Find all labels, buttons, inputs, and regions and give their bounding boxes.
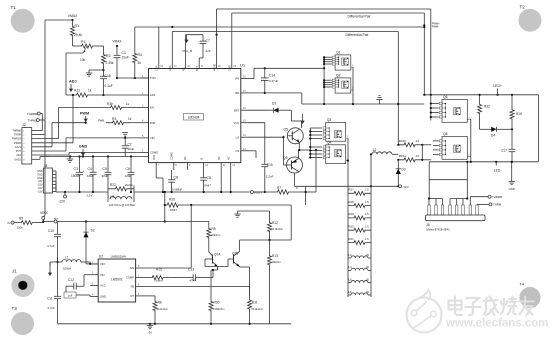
gate bus vertical bbox=[309, 128, 311, 158]
wire to Q1 pin bbox=[324, 59, 332, 61]
svg-text:L6: L6 bbox=[349, 290, 353, 294]
inductor L5 bbox=[351, 281, 368, 283]
svg-text:R12: R12 bbox=[272, 221, 278, 225]
wire left rail down to VINX bbox=[44, 20, 46, 216]
wire to Q6 pin bbox=[431, 107, 439, 109]
svg-text:THRMB: THRMB bbox=[27, 112, 37, 116]
svg-text:PWRGD: PWRGD bbox=[12, 138, 21, 141]
wire Q7 bases bbox=[205, 258, 213, 260]
U1 left pin 2 ADJ bbox=[141, 94, 149, 96]
wire to Q1 pin bbox=[324, 61, 332, 63]
svg-text:Molex 87438-0843: Molex 87438-0843 bbox=[426, 228, 450, 232]
wire C7 bottom to pin bbox=[202, 50, 204, 58]
svg-text:T3: T3 bbox=[12, 306, 18, 311]
wire gate to Q4 pin 2 bbox=[310, 150, 322, 152]
svg-text:ADJ: ADJ bbox=[16, 154, 21, 157]
svg-text:LED+: LED+ bbox=[493, 84, 502, 88]
svg-text:1.5: 1.5 bbox=[365, 188, 369, 192]
svg-text:R25: R25 bbox=[156, 268, 162, 272]
svg-text:POT: POT bbox=[16, 150, 21, 153]
lower supply bus bbox=[65, 191, 108, 193]
J8 pin7 to THRMB bbox=[469, 197, 471, 205]
svg-text:T1: T1 bbox=[11, 5, 17, 10]
svg-text:D2: D2 bbox=[91, 229, 95, 233]
wire D1 to Q5 collector bbox=[284, 109, 292, 111]
svg-text:R16: R16 bbox=[516, 112, 522, 116]
resistor R20 bbox=[348, 228, 371, 232]
wire to Q6 pin bbox=[431, 112, 439, 114]
resistor R11b bbox=[248, 296, 252, 313]
inductor L3 bbox=[351, 256, 368, 258]
svg-text:Differential Pair: Differential Pair bbox=[345, 33, 369, 37]
svg-text:GND1: GND1 bbox=[14, 158, 21, 161]
svg-text:VCC: VCC bbox=[234, 121, 240, 125]
svg-text:THRM: THRM bbox=[14, 134, 21, 137]
wire VIN line to R8 bbox=[86, 221, 209, 223]
wire to Q2 pin bbox=[324, 84, 332, 86]
U1 left pin 1 TON bbox=[141, 77, 149, 79]
svg-text:J8: J8 bbox=[426, 223, 430, 227]
svg-text:COMD: COMD bbox=[150, 151, 158, 155]
svg-text:R2: R2 bbox=[106, 54, 111, 58]
svg-text:Q4: Q4 bbox=[327, 141, 332, 145]
wire R4 top to rail C bbox=[134, 27, 136, 50]
net label LED- bbox=[495, 161, 497, 163]
svg-text:-15V: -15V bbox=[37, 190, 42, 193]
capacitor C12 bbox=[84, 274, 90, 276]
resistor R8 bbox=[208, 222, 210, 227]
svg-text:R3: R3 bbox=[112, 117, 116, 121]
resistor R21 bbox=[348, 241, 371, 245]
capacitor C8 bbox=[171, 170, 173, 176]
wire VMAX to left rail bbox=[45, 19, 73, 21]
wire C13 junction to Q7A bbox=[212, 270, 214, 278]
svg-text:U2: U2 bbox=[99, 255, 103, 259]
svg-text:C2: C2 bbox=[128, 143, 132, 147]
wire to Q2 pin bbox=[324, 82, 332, 84]
LED+ bus bbox=[425, 94, 539, 96]
resistor R2 bbox=[102, 52, 106, 66]
wire R26 left to VIN line bbox=[164, 205, 166, 222]
wire R4 bottom to TON line bbox=[134, 66, 136, 78]
svg-text:TON: TON bbox=[150, 76, 156, 80]
svg-text:C8: C8 bbox=[174, 176, 178, 180]
ferrite bead L3a bbox=[110, 197, 132, 200]
resistor R5 bbox=[18, 221, 36, 225]
svg-text:1.5: 1.5 bbox=[365, 200, 369, 204]
U1 right pin 17 BD bbox=[241, 92, 248, 94]
svg-text:Q3: Q3 bbox=[327, 118, 332, 122]
U2 left pin 1 VIN bbox=[90, 263, 98, 265]
svg-text:D3: D3 bbox=[402, 168, 406, 172]
ground on drain bus bbox=[379, 100, 381, 105]
capacitor C13 bbox=[172, 277, 186, 279]
svg-text:VIN: VIN bbox=[100, 273, 105, 277]
svg-text:100k: 100k bbox=[17, 226, 24, 230]
svg-text:P1: P1 bbox=[81, 40, 85, 44]
svg-text:PWM-: PWM- bbox=[432, 25, 439, 29]
svg-text:R13: R13 bbox=[272, 254, 278, 258]
svg-text:R29: R29 bbox=[349, 212, 355, 216]
U2 right pin 6 FB bbox=[136, 286, 143, 288]
svg-text:C13: C13 bbox=[188, 268, 194, 272]
capacitor C1 bbox=[116, 46, 118, 51]
J8 pin 5 bbox=[456, 205, 458, 215]
wire EN riser bbox=[190, 205, 192, 268]
svg-text:T4: T4 bbox=[519, 282, 524, 287]
svg-text:1k: 1k bbox=[88, 89, 92, 93]
wire base drive bbox=[248, 136, 284, 138]
resistor R16 bbox=[511, 95, 513, 107]
svg-text:.01: .01 bbox=[415, 139, 419, 143]
svg-text:1k: 1k bbox=[128, 117, 132, 121]
svg-text:C12: C12 bbox=[68, 278, 74, 282]
svg-text:NC: NC bbox=[182, 67, 185, 71]
U1 bottom pin 8 COMD bbox=[173, 163, 175, 170]
ground above R12 bbox=[237, 211, 239, 214]
svg-text:100uH: 100uH bbox=[63, 267, 71, 271]
U1 bottom pin 9 NC bbox=[186, 163, 188, 170]
svg-text:2.2uF: 2.2uF bbox=[266, 175, 274, 179]
wire LED- to J8 bbox=[466, 162, 468, 199]
U1 right pin 15 VCC bbox=[241, 122, 248, 124]
svg-text:4.7uF: 4.7uF bbox=[48, 306, 55, 310]
U1 part number box bbox=[184, 114, 204, 121]
capacitor C9 bbox=[203, 170, 205, 175]
svg-text:COMP: COMP bbox=[126, 276, 134, 280]
gate bus top junction bbox=[323, 67, 325, 69]
svg-text:CSN: CSN bbox=[169, 66, 172, 71]
resistor R25 bbox=[143, 276, 172, 280]
inductor L2 bbox=[372, 152, 392, 155]
wire U2 RT to R6 bbox=[143, 295, 155, 297]
U1 left pin 3 EN bbox=[141, 107, 149, 109]
svg-text:NC: NC bbox=[228, 156, 231, 160]
resistor R6 bbox=[153, 299, 157, 313]
svg-text:R21: R21 bbox=[349, 237, 355, 241]
wire gate to Q3 pin 2 bbox=[310, 131, 322, 133]
svg-text:PGND: PGND bbox=[213, 64, 216, 71]
resistor R13 bbox=[269, 240, 271, 253]
gate wire Q6 bbox=[430, 103, 432, 121]
wire rail D bbox=[172, 31, 398, 33]
svg-text:150uF: 150uF bbox=[71, 174, 80, 178]
svg-text:75ohm: 75ohm bbox=[154, 279, 163, 283]
wire P1 to R2 bbox=[93, 45, 104, 47]
U2 left pin 2 VIN bbox=[90, 274, 98, 276]
svg-text:NC: NC bbox=[184, 156, 187, 160]
resistor R1 bbox=[71, 20, 75, 42]
svg-text:RT: RT bbox=[130, 294, 134, 298]
wire pin18 jog up bbox=[248, 78, 254, 80]
ground symbol on bus bbox=[69, 157, 71, 160]
ground left of U2 bbox=[50, 261, 58, 263]
svg-text:LO: LO bbox=[236, 135, 240, 139]
connector J8 body bbox=[425, 215, 485, 221]
wire J2 pin4 to ADJ line bbox=[32, 142, 73, 144]
svg-text:OMIT: OMIT bbox=[204, 184, 211, 188]
svg-text:BD: BD bbox=[235, 91, 239, 95]
inductor L4 bbox=[351, 268, 368, 270]
svg-text:-5V: -5V bbox=[148, 331, 152, 335]
svg-text:+: + bbox=[83, 170, 85, 174]
svg-text:R20: R20 bbox=[349, 224, 355, 228]
op-amp U1 LM3434 body bbox=[149, 69, 241, 163]
wire C18 to ADJ line bbox=[103, 85, 105, 95]
capacitor C17 bbox=[511, 122, 513, 129]
riser to vout bbox=[305, 186, 307, 205]
resistor R28 bbox=[348, 204, 371, 208]
svg-text:0.068uF: 0.068uF bbox=[172, 188, 183, 192]
svg-text:C6: C6 bbox=[126, 167, 130, 171]
svg-text:R22: R22 bbox=[110, 183, 116, 187]
inductor L6 bbox=[351, 293, 368, 295]
svg-text:Q2: Q2 bbox=[336, 74, 341, 78]
wire diff pair A upper bbox=[217, 8, 431, 10]
svg-text:CSP: CSP bbox=[156, 66, 159, 71]
svg-text:100 Ohms @ 100 MHz: 100 Ohms @ 100 MHz bbox=[109, 203, 136, 207]
svg-text:L5: L5 bbox=[349, 278, 353, 282]
wire gate to Q4 pin 3 bbox=[310, 153, 322, 155]
wire to Q8 pin bbox=[433, 144, 439, 146]
svg-text:C15: C15 bbox=[267, 163, 273, 167]
svg-text:R8: R8 bbox=[212, 227, 216, 231]
svg-text:Q8: Q8 bbox=[443, 132, 448, 136]
ground GND right bbox=[511, 162, 513, 182]
J8 tie 4-6 bbox=[449, 199, 451, 206]
svg-text:J1: J1 bbox=[12, 269, 17, 274]
diode D3 bbox=[397, 160, 399, 169]
svg-text:IS: IS bbox=[200, 157, 203, 160]
svg-text:LM5002MA: LM5002MA bbox=[111, 255, 126, 259]
svg-text:R5: R5 bbox=[19, 217, 23, 221]
svg-text:FB: FB bbox=[131, 285, 135, 289]
ground bus bbox=[50, 156, 149, 158]
svg-text:R11: R11 bbox=[74, 89, 80, 93]
resistor R26 bbox=[164, 192, 166, 205]
diode D1 bbox=[248, 109, 271, 111]
svg-text:0.1uF: 0.1uF bbox=[105, 84, 113, 88]
wire J2 pin3 to EN riser bbox=[32, 138, 59, 140]
svg-text:R7: R7 bbox=[277, 186, 281, 190]
wire J2 pin2 to THRM bbox=[32, 134, 45, 136]
U1 right pin 16 BST bbox=[241, 109, 248, 111]
resistor R32 bbox=[479, 95, 481, 101]
svg-text:R11: R11 bbox=[252, 301, 258, 305]
terminal VOUT bbox=[250, 191, 253, 194]
svg-text:C1: C1 bbox=[122, 51, 126, 55]
svg-text:OMIT: OMIT bbox=[170, 208, 177, 212]
svg-text:1uF: 1uF bbox=[68, 294, 73, 298]
wire gate to Q3 pin 4 bbox=[310, 138, 322, 140]
svg-text:EN: EN bbox=[150, 106, 154, 110]
U1 left pin 5 VIN bbox=[141, 137, 149, 139]
svg-text:BST: BST bbox=[234, 108, 240, 112]
wire J2 pin1 to THRMB bbox=[32, 130, 43, 132]
wire R15 to Q8 pins bbox=[422, 144, 431, 146]
resistor R3b bbox=[104, 106, 128, 110]
U1 bottom pin 11 NC bbox=[220, 163, 222, 170]
J8 pin 2 bbox=[435, 205, 437, 215]
svg-text:C11: C11 bbox=[47, 297, 53, 301]
LED- bus bbox=[429, 161, 538, 163]
wire Q1 Q2 drains bbox=[352, 66, 354, 68]
svg-text:10k: 10k bbox=[80, 58, 86, 62]
capacitor C18 bbox=[103, 70, 105, 76]
ground bottom bbox=[149, 324, 151, 326]
wire R1 to P1 bbox=[72, 42, 74, 46]
svg-text:VCC_B: VCC_B bbox=[182, 49, 192, 53]
svg-text:VIN: VIN bbox=[100, 262, 105, 266]
wire to Q8 pin bbox=[433, 149, 439, 151]
svg-text:R32: R32 bbox=[484, 105, 490, 109]
svg-text:Q1: Q1 bbox=[336, 51, 341, 55]
svg-text:-12V: -12V bbox=[58, 200, 66, 204]
svg-text:R6: R6 bbox=[158, 301, 162, 305]
svg-text:VIN: VIN bbox=[235, 77, 240, 81]
U1 bottom pin 10 IS bbox=[203, 163, 205, 170]
capacitor C7 bbox=[202, 35, 204, 41]
wire VINX bus bbox=[43, 221, 53, 223]
svg-text:D4: D4 bbox=[491, 134, 495, 138]
wire ADJ line to pin bbox=[98, 94, 141, 96]
wire J2 pin7 to COMD bbox=[32, 154, 69, 156]
svg-text:J2: J2 bbox=[22, 123, 26, 127]
svg-text:R27: R27 bbox=[349, 188, 355, 192]
capacitor C14 bbox=[264, 68, 266, 78]
svg-text:DMB: DMB bbox=[229, 65, 232, 71]
svg-text:R26: R26 bbox=[169, 198, 175, 202]
wire gate to Q3 pin 1 bbox=[310, 127, 322, 129]
svg-text:CS: CS bbox=[235, 149, 239, 153]
wire gate to Q3 pin 3 bbox=[310, 134, 322, 136]
wire pin7 down bbox=[155, 170, 157, 178]
wire U2 FB bbox=[143, 286, 250, 288]
svg-text:47nF: 47nF bbox=[190, 279, 197, 283]
resistor R11 bbox=[66, 93, 98, 97]
ladder right rail bbox=[370, 154, 372, 297]
resistor R15a bbox=[398, 158, 421, 162]
U1 left pin 4 DIM bbox=[141, 122, 149, 124]
svg-text:Q6: Q6 bbox=[443, 95, 448, 99]
wire Q6 Q8 source rail bbox=[470, 118, 471, 120]
U1 right pin 14 LO bbox=[241, 136, 248, 138]
U1 right pin 18 VIN bbox=[241, 78, 248, 80]
svg-text:Q7A: Q7A bbox=[214, 253, 221, 257]
wire to Q1 pin bbox=[324, 63, 332, 65]
gate wire Q8 module bbox=[428, 162, 430, 199]
wire diff pair A lower bbox=[232, 12, 424, 14]
power arrow near Q5 bbox=[302, 114, 304, 122]
svg-text:R3b: R3b bbox=[107, 102, 113, 106]
capacitor C6 bbox=[130, 155, 132, 157]
svg-text:THRMB: THRMB bbox=[492, 195, 502, 199]
svg-text:LED-: LED- bbox=[494, 169, 502, 173]
J8 tie 1-3 bbox=[428, 199, 430, 206]
link wire bbox=[429, 179, 467, 181]
svg-text:4.7uF: 4.7uF bbox=[47, 244, 55, 248]
U2 left pin 3 VCC bbox=[90, 285, 98, 287]
wire to Q1 pin bbox=[324, 56, 332, 58]
svg-text:PWM: PWM bbox=[98, 119, 104, 123]
wire upper rail to gate bus bbox=[265, 67, 324, 69]
wire bottom pins to VOUT bus bbox=[220, 170, 222, 192]
svg-text:C9: C9 bbox=[207, 176, 211, 180]
wire C1 to TON line bbox=[116, 62, 118, 78]
svg-text:BST: BST bbox=[196, 66, 199, 71]
svg-text:2.49k: 2.49k bbox=[106, 61, 114, 65]
wire Q4 out to ladder bbox=[347, 160, 349, 162]
capacitor C3 bbox=[78, 155, 80, 157]
svg-text:10uF: 10uF bbox=[125, 174, 132, 178]
svg-text:COMD: COMD bbox=[171, 152, 174, 160]
svg-text:12.1kohm: 12.1kohm bbox=[157, 307, 168, 311]
wire gate to Q4 pin 4 bbox=[310, 157, 322, 159]
U2 right pin 7 COMP bbox=[136, 277, 143, 279]
svg-text:R1: R1 bbox=[75, 24, 80, 28]
svg-text:C14: C14 bbox=[269, 74, 275, 78]
wire VIN line to pin bbox=[121, 137, 141, 139]
svg-text:-12V: -12V bbox=[402, 185, 408, 189]
inductor L1 bbox=[57, 258, 59, 262]
resistor R4 bbox=[133, 50, 137, 66]
terminal -12V right bbox=[397, 183, 399, 186]
wire R26 bus right bbox=[181, 204, 292, 206]
resistor R7 bbox=[253, 191, 266, 193]
transistor Q9 pnp bbox=[287, 157, 303, 173]
wire to Q8 pin bbox=[433, 153, 439, 155]
svg-text:10uF: 10uF bbox=[122, 56, 129, 60]
watermark text glyphs bbox=[449, 297, 463, 316]
U1 bottom pin 12 NC bbox=[230, 163, 232, 170]
wire R15 join bbox=[421, 144, 423, 146]
svg-text:PWM: PWM bbox=[80, 112, 89, 116]
svg-text:L1: L1 bbox=[65, 256, 69, 260]
svg-text:GND: GND bbox=[100, 295, 106, 299]
potentiometer P1 bbox=[81, 44, 93, 48]
wire to Q6 pin bbox=[431, 103, 439, 105]
U1 bottom pin 7 VDD bbox=[155, 163, 157, 170]
wire J2 pin5 to DIM line bbox=[32, 146, 52, 148]
frame wire down to R12 bbox=[290, 205, 292, 240]
capacitor C2 bbox=[124, 137, 126, 139]
svg-text:IN: IN bbox=[7, 221, 10, 225]
svg-text:10nF: 10nF bbox=[128, 147, 135, 151]
svg-text:VDD: VDD bbox=[153, 155, 156, 160]
capacitor C11 bbox=[57, 258, 59, 294]
wire Q9 collector down bbox=[294, 173, 296, 186]
svg-text:61.9kohm: 61.9kohm bbox=[252, 307, 263, 311]
wire Q3 out to ladder bbox=[347, 137, 349, 139]
svg-text:VMAX: VMAX bbox=[68, 14, 78, 18]
J8 pin 4 bbox=[449, 205, 451, 215]
svg-text:EN.S: EN.S bbox=[15, 146, 21, 149]
svg-text:L4: L4 bbox=[349, 265, 353, 269]
wire to Q2 pin bbox=[324, 86, 332, 88]
J8 pin 1 bbox=[428, 205, 430, 215]
svg-text:2uF: 2uF bbox=[206, 49, 211, 53]
svg-text:D1: D1 bbox=[272, 102, 276, 106]
wire J3 to -12V node bbox=[55, 171, 57, 191]
svg-text:VIN: VIN bbox=[150, 136, 155, 140]
svg-text:www.elecfans.com: www.elecfans.com bbox=[445, 318, 548, 330]
U2 left pin 4 GND bbox=[90, 296, 98, 298]
resistor R12 bbox=[269, 211, 271, 219]
svg-text:J3: J3 bbox=[44, 164, 48, 168]
wire Q7B collector up bbox=[239, 240, 241, 247]
svg-text:10uF: 10uF bbox=[87, 174, 94, 178]
wire to Q8 pin bbox=[433, 140, 439, 142]
